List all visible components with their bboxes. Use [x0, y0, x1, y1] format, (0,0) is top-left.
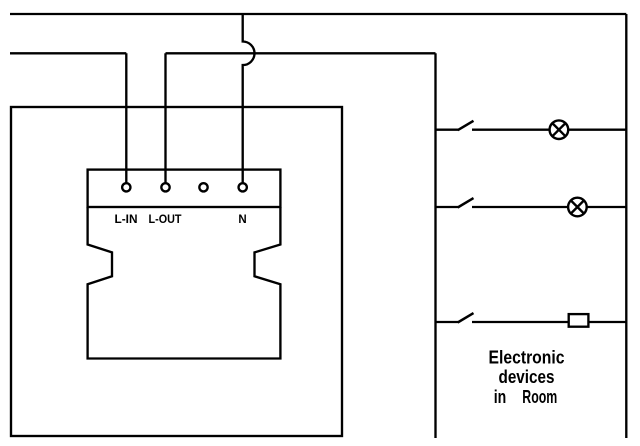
svg-text:Room: Room: [522, 387, 557, 407]
svg-text:in: in: [494, 387, 507, 407]
switch S2 lead left: [436, 206, 459, 208]
lamp E1: circle with cross: [550, 120, 569, 139]
switch S1 lead left: [436, 129, 459, 131]
wire: branch 3 from switch to load: [472, 321, 569, 323]
wire: right return vertical: [625, 14, 627, 438]
switch S3 lead left: [436, 321, 459, 323]
device U1: terminal strip: [88, 170, 281, 207]
load: electronic device box: [569, 314, 589, 327]
switch S2 blade: [458, 198, 474, 207]
terminal circle: N: [239, 183, 247, 191]
switch S3 blade: [458, 313, 474, 322]
wire: L-OUT drop: [164, 53, 166, 183]
switch S1 blade: [458, 121, 474, 130]
wire: branch 1 lamp to right vertical: [568, 129, 627, 131]
wire: switch bus vertical: [434, 53, 436, 438]
wire: branch 3 load to right vertical: [588, 321, 626, 323]
wire: top supply line (horizontal): [10, 13, 626, 15]
terminal circle: L-IN: [122, 183, 130, 191]
wire: N drop with hop over second line: [243, 14, 255, 183]
wire: branch 2 lamp to right vertical: [586, 206, 626, 208]
lamp E2: circle with cross: [568, 198, 587, 217]
svg-text:L-IN: L-IN: [115, 214, 138, 226]
terminal circle: unused: [199, 183, 207, 191]
wire: branch 1 from switch to lamp: [472, 129, 550, 131]
device U1: body outline with DIN notches: [88, 207, 281, 359]
wire: branch 2 from switch to lamp: [472, 206, 569, 208]
svg-text:L-OUT: L-OUT: [149, 214, 182, 226]
terminal circle: L-OUT: [161, 183, 169, 191]
wire: second line left segment to L-IN: [10, 52, 126, 54]
outer box: room / enclosure: [11, 107, 342, 436]
wire: L-IN drop: [125, 53, 127, 183]
svg-text:devices: devices: [499, 367, 555, 387]
svg-text:N: N: [238, 214, 246, 226]
svg-text:Electronic: Electronic: [489, 348, 565, 368]
wire: second line right segment from L-OUT to switch bus: [166, 52, 436, 54]
